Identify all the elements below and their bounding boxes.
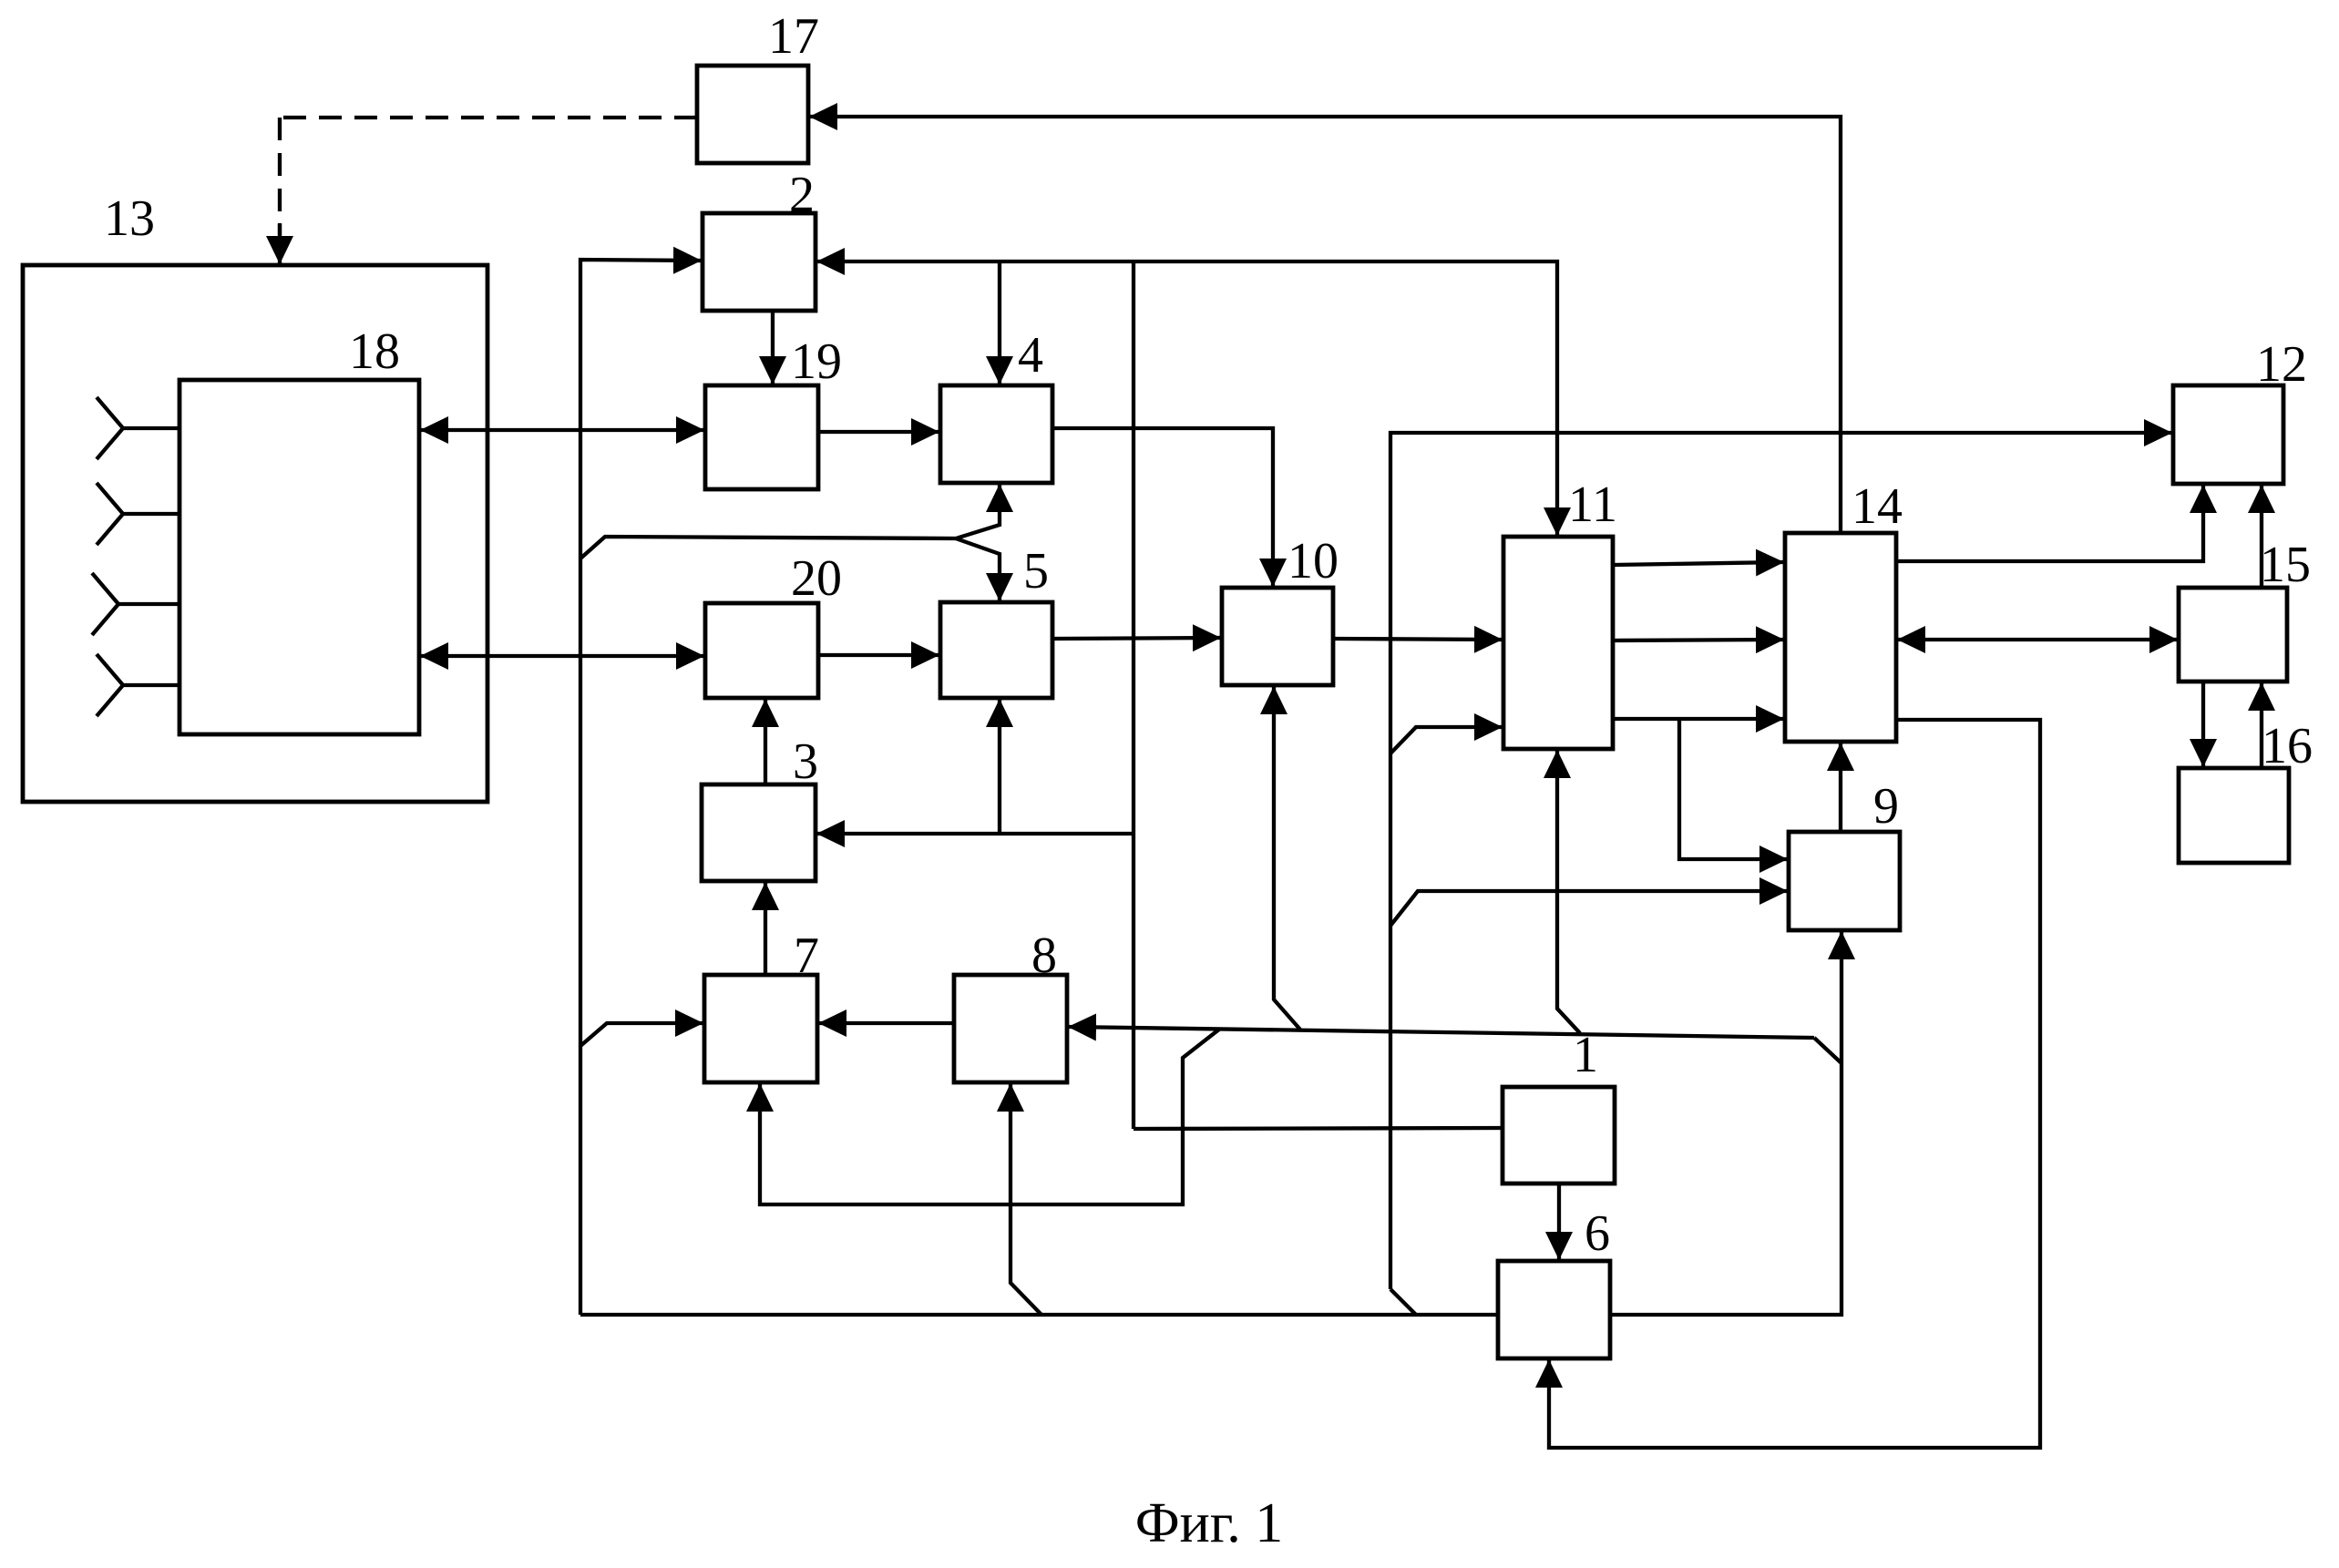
dashed wire 17 to 13 vertical xyxy=(278,118,282,235)
arrow into block 13 top xyxy=(278,223,282,263)
wire 16 top up into 15 bottom arrow xyxy=(2260,683,2263,768)
block 10 box xyxy=(1222,588,1333,685)
wire net from 1: horizontal above 2 and branch down to 11 top xyxy=(817,261,1557,535)
wire 5 to 10 arrow xyxy=(1052,638,1220,639)
wire T branch up arrow into 5 bottom xyxy=(998,700,1001,834)
wire 11 output to 14 lower input arrow xyxy=(1613,717,1783,721)
dashed wire 17 to 13 horizontal xyxy=(280,116,697,119)
wire corner to 1 left output xyxy=(1134,1128,1503,1129)
wire 20 to 5 arrow xyxy=(818,653,939,657)
antenna A2 xyxy=(97,483,180,545)
wire 14 lower right output down and left into 6 bottom arrow xyxy=(1549,720,2040,1448)
block 18 box xyxy=(180,380,419,734)
svg-text:2: 2 xyxy=(789,167,815,223)
wire chamfer from 9 bottom vertical to common bottom net xyxy=(1814,1038,1841,1063)
wire T branch into 3 right input xyxy=(817,832,1134,835)
antenna A3 xyxy=(92,573,180,635)
block 20 box xyxy=(705,603,818,698)
block 16 box xyxy=(2179,768,2289,863)
wire chamfer up into 10 bottom arrow xyxy=(1274,687,1300,1030)
block 4 box xyxy=(940,385,1052,483)
svg-text:5: 5 xyxy=(1023,543,1049,600)
svg-text:9: 9 xyxy=(1873,778,1899,835)
fork upper branch arrow into 4 bottom xyxy=(956,485,1000,538)
wire 6 right output to 9 bottom arrow xyxy=(1610,932,1841,1315)
wire 11 output to 14 middle input arrow xyxy=(1613,640,1783,641)
wire 18 and 20 bidirectional arrows xyxy=(421,654,703,658)
svg-text:18: 18 xyxy=(349,323,400,380)
antenna A1 xyxy=(97,397,180,459)
wire long vertical from 6 left net with corner to 12 left arrow xyxy=(1390,433,2171,1289)
svg-text:15: 15 xyxy=(2260,537,2311,593)
block 8 box xyxy=(954,975,1067,1082)
block 19 box xyxy=(705,385,818,489)
fork lower branch arrow into 5 top xyxy=(956,538,1000,600)
block 11 box xyxy=(1503,537,1613,749)
wire 1 bottom to 6 top arrow xyxy=(1557,1184,1561,1259)
wire branch down arrow into 4 top xyxy=(998,261,1001,384)
wire 15 top into 12 bottom arrow xyxy=(2260,486,2263,588)
svg-text:Фиг. 1: Фиг. 1 xyxy=(1135,1492,1284,1554)
block 17 box xyxy=(697,66,808,163)
wire 3 to 20 arrow up xyxy=(764,700,767,784)
wire chamfer joining 6 output line xyxy=(1390,1289,1416,1315)
svg-text:17: 17 xyxy=(768,8,819,65)
svg-text:14: 14 xyxy=(1852,478,1903,535)
wire 6 left output line xyxy=(580,1313,1498,1317)
wire chamfer into 9 lower left input xyxy=(1390,891,1787,926)
wire main vertical branch of net 1 xyxy=(1132,261,1135,1129)
block 7 box xyxy=(704,975,817,1082)
wire 2 bottom to 19 top arrow xyxy=(771,311,775,384)
wire from 6 output up left vertical to 2 left input xyxy=(580,260,701,1315)
wire chamfer from 6 line up into 8 bottom xyxy=(1010,1084,1041,1315)
wire 18 and 19 bidirectional arrows xyxy=(421,428,703,432)
svg-text:8: 8 xyxy=(1031,927,1057,984)
block 2 box xyxy=(703,213,816,311)
block 14 box xyxy=(1785,533,1896,742)
block 9 box xyxy=(1789,832,1900,930)
svg-text:7: 7 xyxy=(794,927,819,984)
wire branch down from 11 output into 9 upper left arrow xyxy=(1679,719,1787,859)
svg-text:10: 10 xyxy=(1287,533,1339,589)
wire 8 to 7 arrow xyxy=(819,1021,954,1025)
svg-text:16: 16 xyxy=(2262,718,2313,774)
wire 19 to 4 arrow xyxy=(818,430,939,434)
svg-text:1: 1 xyxy=(1573,1027,1598,1083)
wire 9 top to 14 bottom arrow up xyxy=(1839,743,1842,832)
block 15 box xyxy=(2179,588,2287,682)
svg-text:3: 3 xyxy=(793,733,818,790)
block 12 box xyxy=(2173,385,2283,484)
wire 15 bottom down into 16 top arrow xyxy=(2201,682,2205,766)
block 6 box xyxy=(1498,1261,1610,1358)
wire from 14 top to 17 right with arrow into 17 xyxy=(810,117,1841,533)
block 3 box xyxy=(702,784,816,881)
wire chamfer up into 11 bottom arrow xyxy=(1557,751,1580,1033)
wire chamfer from left vertical to fork feeding 4 and 5 xyxy=(580,537,956,559)
block 13 outer box xyxy=(23,265,487,802)
svg-text:11: 11 xyxy=(1568,477,1617,533)
wire chamfer into 11 lower left input xyxy=(1390,727,1502,753)
svg-text:20: 20 xyxy=(791,550,842,607)
wire chamfer from left vertical into 7 left input xyxy=(580,1023,703,1046)
antenna A4 xyxy=(97,654,180,716)
wire 10 to 11 arrow xyxy=(1333,639,1502,640)
wire chamfer and path into 7 bottom arrow xyxy=(760,1029,1220,1204)
svg-text:4: 4 xyxy=(1018,327,1043,384)
block 5 box xyxy=(940,602,1052,698)
block 1 box xyxy=(1503,1087,1615,1184)
svg-text:6: 6 xyxy=(1585,1205,1610,1262)
wire 4 right output to 10 top arrow xyxy=(1052,428,1273,586)
svg-text:12: 12 xyxy=(2256,336,2307,393)
wire 14 output right corner up into 12 bottom arrow xyxy=(1896,486,2203,561)
svg-text:19: 19 xyxy=(791,333,842,390)
wire common bottom net into 8 right arrow xyxy=(1069,1027,1814,1038)
wire 7 to 3 arrow up xyxy=(764,883,767,975)
wire 14 and 15 bidirectional arrows xyxy=(1898,638,2177,641)
svg-text:13: 13 xyxy=(104,190,155,247)
wire 11 output to 14 top input arrow xyxy=(1613,562,1783,565)
